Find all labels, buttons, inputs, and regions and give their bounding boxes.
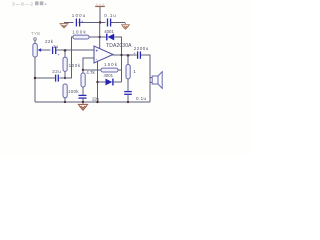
resistor R6 1 (zobel) xyxy=(126,55,136,91)
svg-text:+: + xyxy=(57,52,60,57)
resistor R2 100k (bias lower) xyxy=(63,84,79,102)
svg-text:22u: 22u xyxy=(52,69,61,74)
node: bias midpoint X xyxy=(64,77,66,79)
ground (bottom bus) xyxy=(78,102,88,110)
svg-text:3—8—2: 3—8—2 xyxy=(12,1,33,7)
wire: input to + input of op-amp xyxy=(56,49,94,51)
svg-text:+: + xyxy=(81,19,84,24)
svg-text:1: 1 xyxy=(133,69,136,74)
wire: -input of op-amp xyxy=(83,58,94,70)
caption text "3-8-2 ..." xyxy=(12,1,46,7)
node: ground line / D2 anode xyxy=(96,81,98,83)
svg-text:TYB: TYB xyxy=(31,31,40,36)
node: pot line / 22u junction xyxy=(34,77,36,79)
svg-text:4001: 4001 xyxy=(104,29,114,34)
svg-text:150k: 150k xyxy=(104,62,118,67)
resistor R3 100k (bias upper) xyxy=(63,50,81,78)
node: rail / VCC stem junction xyxy=(99,21,101,23)
capacitor C2 22u (bias bypass) xyxy=(35,69,61,81)
node: bus junctions xyxy=(64,101,129,103)
capacitor C5 2200u (output coupling) xyxy=(133,46,150,102)
svg-text:0.1u: 0.1u xyxy=(136,96,146,101)
svg-text:100k: 100k xyxy=(72,30,86,35)
node: output / zobel junction xyxy=(127,54,130,57)
wire: VCC stem to rail xyxy=(99,7,101,23)
svg-text:100u: 100u xyxy=(72,13,86,18)
node: +input / bias column junction xyxy=(64,49,67,52)
diode D1 4001 (output to Vcc clamp) xyxy=(100,29,122,55)
diode D2 4001 (gnd to output clamp) xyxy=(98,73,122,85)
node: output junction xyxy=(120,54,122,56)
svg-text:100k: 100k xyxy=(68,89,79,94)
wire: VCC down to op-amp and bias xyxy=(99,23,101,49)
svg-text:22u: 22u xyxy=(92,97,99,102)
wire: bottom ground bus xyxy=(35,101,150,103)
svg-text:4.7k: 4.7k xyxy=(86,70,95,75)
capacitor C4 0.1u (zobel) xyxy=(124,92,146,102)
wire: node X horizontal xyxy=(60,77,72,79)
node: VCC / R1 / D1 junction xyxy=(99,36,101,38)
resistor R5 150k (feedback) xyxy=(83,62,122,72)
wire: op-amp ground pin 3 xyxy=(97,61,99,102)
power symbol VCC xyxy=(95,2,105,7)
svg-text:2200u: 2200u xyxy=(134,46,149,51)
wire: op-amp output xyxy=(113,54,137,56)
potentiometer RP 22k (volume, input terminal TYB) xyxy=(31,31,54,102)
wire: output node vertical (feedback/diodes) xyxy=(121,55,123,82)
capacitor C1 1u (input coupling) xyxy=(53,44,61,57)
svg-text:TDA2030A: TDA2030A xyxy=(106,43,132,49)
resistor R1 100k (bias from Vcc) xyxy=(72,30,100,78)
ground (top left) xyxy=(60,24,69,28)
svg-text:vcc: vcc xyxy=(96,2,105,6)
node: feedback junction xyxy=(82,69,84,71)
ground (top right) xyxy=(121,23,130,30)
wire: top supply rail xyxy=(64,22,125,24)
svg-text:4001: 4001 xyxy=(104,73,114,78)
resistor R4 4.7k xyxy=(81,70,95,95)
speaker LS1 xyxy=(150,72,162,89)
capacitor C3 22u (feedback) xyxy=(79,95,100,102)
op-amp U1 TDA2030A xyxy=(94,43,132,63)
capacitor C 100u (supply filter) xyxy=(72,13,86,26)
svg-text:0.1u: 0.1u xyxy=(104,13,116,18)
svg-text:+: + xyxy=(95,49,98,55)
svg-text:100k: 100k xyxy=(69,63,81,68)
capacitor C 0.1u (supply bypass) xyxy=(104,13,116,26)
